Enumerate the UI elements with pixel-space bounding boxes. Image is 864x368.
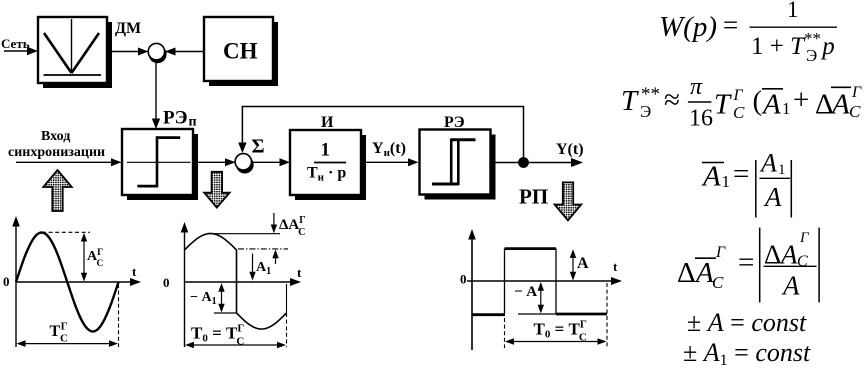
svg-text:A: A [577,255,589,272]
plot3 y-axis [471,235,473,350]
plot2 period right marker [286,284,288,313]
formula A1bar equals [702,162,724,164]
block I [290,130,361,195]
plot2 x-axis arrowhead [290,278,301,286]
svg-text:± A = const: ± A = const [687,308,807,337]
svg-text:0: 0 [163,275,170,290]
plot3 square wave falling edge [555,249,557,314]
svg-text:± A1 = const: ± A1 = const [683,338,811,368]
junction dot [518,157,529,168]
RE relay step left vertical [450,139,453,186]
svg-text:Э: Э [640,102,651,121]
plot3 square wave high segment [505,247,557,250]
RE relay upper horizontal [451,138,475,141]
svg-text:t: t [297,265,302,280]
REp relay axis line [127,161,191,163]
REp relay step lower horizontal [137,185,157,188]
plot3 square wave low right [556,313,607,316]
svg-text:0: 0 [460,272,467,287]
svg-text:синхронизации: синхронизации [8,145,105,160]
svg-text:1: 1 [722,172,731,191]
plot2 y-axis arrowhead [181,222,189,233]
plot1 x-axis arrowhead [130,278,141,286]
arrowhead output Y(t) [571,158,583,167]
svg-text:Г: Г [799,230,810,246]
plot3 minus A reference line [518,313,556,315]
arrowhead into REp top [152,119,160,130]
arrowhead into I block [280,158,291,166]
wire Seti input [4,50,30,52]
hollow up arrow under sync input [43,170,71,211]
svg-text:Ти · р: Ти · р [307,165,346,184]
plot1 period dimension arrow [21,343,114,345]
summator circle shadow [236,156,254,174]
plot3 x-axis [467,280,614,282]
svg-text:0: 0 [3,274,10,289]
block RE [420,130,491,195]
REp relay step vertical [156,136,159,187]
svg-text:=: = [723,10,738,40]
rectifier symbol vertical axis [71,19,73,73]
svg-text:A: A [694,257,714,289]
svg-text:A: A [830,89,850,121]
plot2 distorted wave positive hump [185,234,287,330]
svg-text:C: C [712,273,724,292]
svg-text:=: = [738,247,754,279]
svg-text:СН: СН [223,39,258,64]
svg-text:A: A [781,271,800,301]
svg-text:t: t [613,259,618,274]
plot3 minus A dimension arrow [540,287,542,308]
svg-text:Сеть: Сеть [1,36,30,51]
plot2 peak level line [210,233,280,235]
wire DM to modulator circle [112,51,140,53]
rectifier symbol V right stroke [72,33,100,73]
plot2 A1 dashdot level line [238,248,288,250]
summator circle [235,154,251,170]
plot3 y-axis arrowhead [468,229,476,240]
svg-text:16: 16 [689,106,713,132]
arrowhead into RE [408,158,419,166]
svg-text:Δ: Δ [815,89,834,121]
plot1 y-axis arrowhead [12,216,20,227]
plot2 A1 down arrow [252,254,254,276]
plot3 A dimension arrow [572,254,574,276]
REp relay step upper horizontal [157,136,180,139]
svg-text:Σ: Σ [252,136,265,158]
wire REp to summator [197,161,232,163]
plot1 y-axis [15,222,17,347]
svg-text:1 + T**Эp: 1 + T**Эp [751,29,835,65]
svg-text:A: A [761,89,781,121]
svg-text:РЭ: РЭ [444,114,465,131]
svg-text:A: A [779,240,798,270]
block DM (rectifier) shadow [43,22,112,88]
feedback wire vertical at junction [242,107,523,163]
wire summator to I block [252,161,282,163]
arrowhead into DM [27,47,38,55]
svg-text:Y(t): Y(t) [556,141,584,158]
formula A1bar fraction bar [760,177,791,179]
RE relay lower horizontal [432,183,458,186]
svg-text:1: 1 [782,99,791,118]
rectifier symbol V left stroke [44,33,72,73]
svg-text:1: 1 [778,162,786,178]
svg-text:C: C [797,253,808,270]
arrowhead into summator [225,158,236,166]
formula A1bar absolute bars [755,160,757,218]
plot2 x-axis [185,281,294,283]
svg-text:A: A [763,182,782,212]
modulator circle shadow [149,45,167,63]
modulator circle [148,43,164,59]
svg-text:=: = [733,158,749,190]
plot3 square wave rising edge [504,249,506,315]
svg-text:Δ: Δ [764,240,781,270]
formula dAc absolute bars [759,228,761,303]
plot3 x-axis arrowhead [611,277,622,285]
svg-text:ДМ: ДМ [115,20,141,37]
arrowhead into modulator from right [165,48,176,56]
svg-text:Г: Г [715,244,726,261]
plot1 period right dashed line [118,284,120,347]
svg-text:Вход: Вход [41,129,70,144]
plot1 peak dashed level line [42,231,90,233]
plot2 A1 up arrow [275,254,277,264]
svg-text:W(p): W(p) [659,11,717,43]
svg-text:Yи(t): Yи(t) [372,140,406,159]
svg-text:И: И [321,114,334,131]
block REp shadow [127,134,198,200]
plot2 period dimension arrow [190,344,283,346]
svg-text:1: 1 [321,140,331,161]
wire I to RE [366,161,410,163]
plot3 square wave low left [472,313,505,316]
plot1 x-axis [16,281,133,283]
svg-text:C: C [733,103,745,122]
formula dAc fraction bar [764,265,817,267]
svg-text:≈: ≈ [664,84,680,116]
svg-text:T: T [714,89,732,121]
block I shadow [295,135,366,200]
block RE shadow [425,135,496,200]
plot2 minus A1 dimension arrow [221,288,223,307]
svg-text:C: C [849,102,861,121]
svg-text:Δ: Δ [677,257,696,289]
plot2 delta arrow [273,213,275,228]
svg-text:T: T [621,85,639,117]
rectifier symbol baseline [44,74,102,76]
svg-text:Г: Г [733,87,744,104]
svg-text:1: 1 [787,0,799,22]
I block fraction bar [314,162,346,164]
svg-text:A: A [759,149,777,178]
svg-text:+: + [793,84,809,116]
arrowhead into modulator from left [138,48,149,56]
svg-text:РП: РП [519,185,548,209]
plot3 period right dashed marker [606,283,608,348]
plot2 minus A1 level line [214,312,237,314]
RE relay step right vertical [457,139,460,186]
hollow down arrow RP [555,182,582,220]
wire sync input [16,161,113,163]
wire modulator down to REp [155,60,157,121]
block DM (rectifier) [38,17,107,83]
formula W(p) fraction bar [750,26,837,28]
block SN shadow [209,22,278,86]
svg-text:π: π [690,74,703,100]
arrowhead into REp left [111,158,122,166]
hollow down arrow after REp [204,172,229,208]
block SN [204,17,273,81]
svg-text:− A: − A [514,284,537,300]
svg-text:A: A [701,161,721,193]
svg-text:t: t [132,264,137,279]
plot2 y-axis [184,228,186,347]
wire SN to modulator [166,51,204,53]
plot1 amplitude dimension arrow [83,238,85,276]
plot3 period dimension arrow [510,341,603,343]
block REp [122,129,193,195]
svg-text:Г: Г [851,84,862,101]
plot3 period left dashed marker [504,318,506,348]
arrowhead feedback into summator top [238,143,246,154]
plot1 sine wave [16,233,119,332]
svg-text:(: ( [753,85,763,117]
wire RE to output [496,162,574,164]
